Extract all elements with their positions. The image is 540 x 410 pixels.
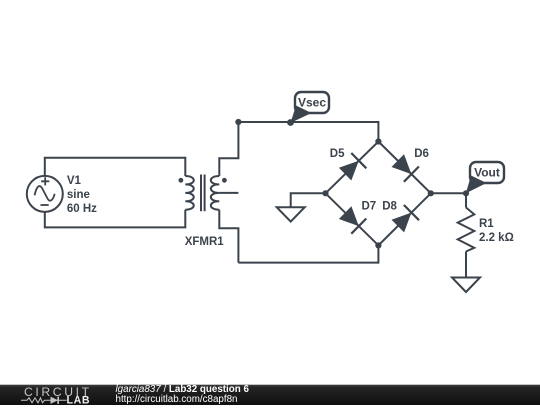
svg-text:D5: D5 xyxy=(330,148,345,160)
svg-text:LAB: LAB xyxy=(67,395,91,405)
svg-text:D6: D6 xyxy=(414,148,429,160)
svg-text:Vsec: Vsec xyxy=(298,96,326,110)
svg-text:XFMR1: XFMR1 xyxy=(185,236,225,248)
svg-text:D7: D7 xyxy=(362,201,377,213)
svg-text:D8: D8 xyxy=(382,201,397,213)
svg-text:R1: R1 xyxy=(479,218,494,230)
svg-text:60 Hz: 60 Hz xyxy=(67,203,97,215)
svg-text:2.2 kΩ: 2.2 kΩ xyxy=(479,232,514,244)
svg-text:V1: V1 xyxy=(67,175,82,187)
svg-text:http://circuitlab.com/c8apf8n: http://circuitlab.com/c8apf8n xyxy=(116,394,238,405)
svg-text:Vout: Vout xyxy=(474,166,500,180)
svg-text:sine: sine xyxy=(67,189,90,201)
